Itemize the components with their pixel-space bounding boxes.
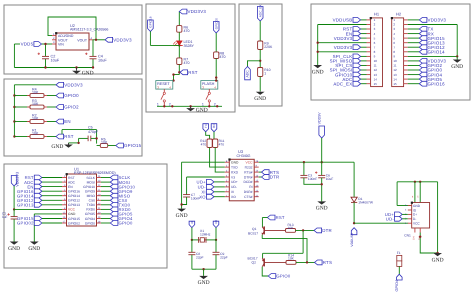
svg-text:RX: RX: [212, 124, 216, 128]
svg-text:VDDUSB: VDDUSB: [333, 18, 353, 23]
svg-text:15: 15: [393, 82, 397, 86]
svg-text:GPIO5: GPIO5: [85, 212, 95, 216]
svg-text:220K: 220K: [264, 45, 273, 49]
svg-text:VDD3V3: VDD3V3: [334, 45, 353, 50]
svg-text:GND: GND: [28, 246, 40, 252]
svg-text:GPIO15: GPIO15: [68, 217, 80, 221]
svg-text:GND: GND: [413, 204, 421, 208]
svg-text:15: 15: [374, 82, 378, 86]
svg-text:C5: C5: [88, 126, 93, 130]
svg-text:10: 10: [393, 59, 397, 63]
svg-text:DCD#: DCD#: [244, 180, 253, 184]
svg-text:GPIO10: GPIO10: [83, 185, 95, 189]
svg-text:MOSI: MOSI: [87, 180, 96, 184]
svg-text:SCLK: SCLK: [86, 176, 95, 180]
svg-text:470: 470: [219, 143, 225, 147]
svg-text:10uF: 10uF: [326, 177, 334, 181]
svg-text:RST: RST: [276, 215, 285, 220]
svg-text:GPIO15: GPIO15: [124, 143, 142, 148]
svg-text:100nF: 100nF: [308, 177, 317, 181]
svg-text:VDD3V3: VDD3V3: [113, 38, 132, 43]
svg-text:GND: GND: [231, 161, 239, 165]
svg-text:F1: F1: [397, 251, 401, 255]
svg-text:VDD5V: VDD5V: [318, 112, 322, 125]
svg-text:GND: GND: [316, 206, 328, 212]
svg-text:SH: SH: [413, 236, 416, 240]
svg-text:GND: GND: [312, 69, 324, 75]
svg-text:ADC: ADC: [246, 70, 250, 78]
svg-text:D-: D-: [413, 217, 416, 221]
svg-text:VDDUSB: VDDUSB: [350, 232, 354, 247]
svg-text:CTS#: CTS#: [244, 195, 253, 199]
svg-text:VOUT: VOUT: [77, 38, 88, 42]
svg-text:GND: GND: [451, 64, 463, 70]
svg-text:TX: TX: [204, 124, 208, 128]
svg-text:Q2: Q2: [252, 260, 257, 264]
svg-text:GPIO9: GPIO9: [85, 190, 95, 194]
svg-text:GPIO02: GPIO02: [17, 221, 34, 226]
svg-text:TXD: TXD: [231, 165, 238, 169]
svg-text:VIN: VIN: [58, 43, 64, 47]
svg-text:EN: EN: [68, 185, 73, 189]
svg-text:14: 14: [374, 77, 378, 81]
svg-text:VCC: VCC: [246, 161, 254, 165]
svg-text:CS0: CS0: [89, 199, 96, 203]
svg-text:10K: 10K: [32, 116, 39, 120]
svg-text:11: 11: [374, 64, 377, 68]
svg-text:13: 13: [393, 73, 397, 77]
svg-text:11: 11: [393, 64, 396, 68]
svg-text:GPIO14: GPIO14: [68, 194, 80, 198]
svg-text:DTR#: DTR#: [244, 175, 253, 179]
svg-text:RST: RST: [68, 176, 75, 180]
svg-text:RXD0: RXD0: [86, 208, 95, 212]
svg-text:10K: 10K: [32, 102, 39, 106]
svg-text:470: 470: [184, 61, 190, 65]
svg-text:GPIO12: GPIO12: [68, 199, 80, 203]
svg-text:GPIO16: GPIO16: [68, 190, 80, 194]
svg-text:GND: GND: [432, 257, 444, 263]
svg-text:1uF: 1uF: [2, 215, 8, 219]
svg-text:ESP-12F(ESP8266MOD): ESP-12F(ESP8266MOD): [74, 171, 116, 175]
svg-text:VCC: VCC: [68, 208, 76, 212]
svg-text:VDD3V3: VDD3V3: [428, 18, 447, 23]
svg-text:10K: 10K: [32, 90, 39, 94]
svg-text:XI: XI: [190, 221, 194, 224]
svg-text:GND: GND: [51, 144, 63, 150]
svg-text:GPIO14: GPIO14: [428, 50, 446, 55]
svg-text:TXD0: TXD0: [87, 203, 96, 207]
svg-text:GPIO4: GPIO4: [85, 217, 95, 221]
svg-text:VCC: VCC: [413, 222, 420, 226]
svg-text:12MHz: 12MHz: [200, 233, 211, 237]
svg-text:UD+: UD+: [231, 180, 238, 184]
svg-text:GPIO0: GPIO0: [119, 221, 133, 226]
svg-text:470pF: 470pF: [88, 130, 99, 134]
svg-text:GPIO16: GPIO16: [149, 16, 153, 27]
svg-text:XO: XO: [199, 194, 206, 199]
svg-text:EN: EN: [64, 119, 71, 124]
svg-text:10K: 10K: [288, 226, 295, 230]
svg-text:GND: GND: [198, 280, 210, 286]
svg-text:3528Y: 3528Y: [184, 44, 195, 48]
svg-text:UD-: UD-: [231, 185, 237, 189]
svg-text:470: 470: [201, 143, 207, 147]
svg-text:GPIO0: GPIO0: [85, 221, 95, 225]
svg-text:RST: RST: [64, 134, 74, 139]
svg-text:1N4007W: 1N4007W: [358, 201, 374, 205]
svg-text:ADC: ADC: [68, 180, 76, 184]
svg-text:GPIO02: GPIO02: [68, 221, 80, 225]
svg-text:DTR: DTR: [270, 175, 280, 180]
svg-text:FLASH: FLASH: [202, 82, 214, 86]
svg-text:D+: D+: [413, 213, 417, 217]
svg-text:Q1: Q1: [252, 227, 257, 231]
svg-text:12: 12: [393, 68, 397, 72]
svg-text:BC817: BC817: [248, 232, 258, 236]
svg-text:GND: GND: [196, 108, 208, 114]
svg-text:10: 10: [374, 59, 378, 63]
svg-text:VDD5: VDD5: [21, 42, 34, 47]
svg-text:DTR: DTR: [322, 228, 332, 233]
svg-text:22pF: 22pF: [220, 256, 228, 260]
svg-text:ADC_EX: ADC_EX: [258, 4, 262, 18]
svg-text:CH340G: CH340G: [237, 154, 251, 158]
svg-text:RST: RST: [188, 70, 198, 75]
svg-text:10K: 10K: [32, 131, 39, 135]
svg-text:MISO: MISO: [87, 194, 96, 198]
svg-text:12: 12: [374, 68, 378, 72]
svg-text:RTS: RTS: [323, 260, 332, 265]
svg-text:AMS1117-3.3_CA26566: AMS1117-3.3_CA26566: [70, 28, 108, 32]
svg-text:13: 13: [374, 73, 378, 77]
svg-text:GPIO13: GPIO13: [68, 203, 80, 207]
svg-text:VDD3V3: VDD3V3: [64, 83, 83, 88]
svg-text:10K: 10K: [288, 256, 295, 260]
svg-text:GPIO2: GPIO2: [64, 105, 79, 110]
svg-text:GPIO13: GPIO13: [17, 203, 34, 208]
svg-text:RXD: RXD: [231, 170, 239, 174]
svg-text:470: 470: [184, 29, 190, 33]
svg-text:470: 470: [220, 55, 226, 59]
svg-text:GPIO00: GPIO00: [214, 18, 218, 29]
svg-text:VDD3V3: VDD3V3: [188, 9, 207, 14]
svg-text:GPIO16: GPIO16: [428, 81, 446, 86]
svg-text:GPIO0: GPIO0: [276, 274, 290, 279]
svg-text:GPIO0: GPIO0: [64, 93, 79, 98]
svg-text:1: 1: [264, 72, 266, 76]
svg-text:DSR#: DSR#: [244, 190, 253, 194]
svg-text:14: 14: [393, 77, 397, 81]
svg-text:H1: H1: [374, 12, 380, 17]
svg-text:GND: GND: [82, 70, 94, 76]
svg-text:VDD3V3: VDD3V3: [334, 36, 353, 41]
svg-text:ADC_EX: ADC_EX: [333, 81, 352, 86]
svg-text:GND: GND: [254, 96, 266, 102]
svg-text:GND: GND: [176, 213, 188, 219]
svg-text:H2: H2: [396, 12, 402, 17]
svg-text:UD-: UD-: [386, 217, 395, 222]
svg-text:RTS#: RTS#: [244, 170, 253, 174]
svg-text:XO: XO: [231, 195, 236, 199]
svg-text:GND: GND: [68, 212, 76, 216]
svg-text:10uF: 10uF: [98, 59, 107, 63]
svg-text:22pF: 22pF: [196, 256, 204, 260]
svg-text:GPIO4: GPIO4: [395, 280, 399, 292]
svg-text:10uF: 10uF: [51, 59, 60, 63]
svg-text:CN1: CN1: [404, 233, 411, 237]
svg-text:V3: V3: [231, 175, 235, 179]
svg-text:XI: XI: [231, 190, 234, 194]
svg-text:RI: RI: [249, 185, 252, 189]
svg-text:VDD3V3: VDD3V3: [16, 172, 20, 187]
svg-text:10K: 10K: [101, 141, 108, 145]
svg-text:R232: R232: [245, 165, 253, 169]
svg-text:GND: GND: [8, 246, 20, 252]
